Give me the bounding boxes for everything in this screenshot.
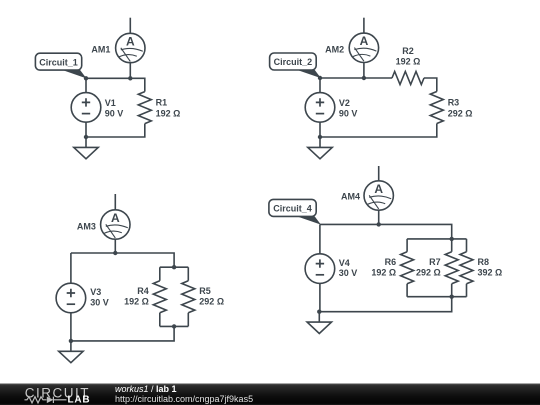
svg-text:30 V: 30 V <box>90 298 109 308</box>
svg-text:292 Ω: 292 Ω <box>199 297 224 307</box>
svg-text:V2: V2 <box>339 98 350 108</box>
svg-text:Circuit_4: Circuit_4 <box>273 203 312 213</box>
svg-text:AM4: AM4 <box>341 191 360 201</box>
svg-text:AM3: AM3 <box>77 222 96 232</box>
svg-text:A: A <box>374 182 383 196</box>
svg-text:R6: R6 <box>385 257 397 267</box>
svg-text:90 V: 90 V <box>105 108 124 118</box>
svg-text:R2: R2 <box>402 46 414 56</box>
svg-text:V3: V3 <box>90 287 101 297</box>
svg-text:192 Ω: 192 Ω <box>396 56 421 66</box>
svg-text:workus1 / lab 1: workus1 / lab 1 <box>115 384 177 394</box>
svg-text:292 Ω: 292 Ω <box>416 268 441 278</box>
svg-text:R7: R7 <box>429 257 441 267</box>
svg-text:R4: R4 <box>137 286 149 296</box>
svg-text:R8: R8 <box>478 257 490 267</box>
svg-text:LAB: LAB <box>68 394 91 405</box>
svg-text:292 Ω: 292 Ω <box>448 109 473 119</box>
svg-text:R1: R1 <box>156 97 168 107</box>
svg-text:192 Ω: 192 Ω <box>371 268 396 278</box>
svg-text:R3: R3 <box>448 97 460 107</box>
svg-text:A: A <box>126 34 135 48</box>
svg-text:192 Ω: 192 Ω <box>156 109 181 119</box>
svg-text:392 Ω: 392 Ω <box>478 268 503 278</box>
svg-text:192 Ω: 192 Ω <box>124 297 149 307</box>
svg-text:AM2: AM2 <box>325 45 344 55</box>
svg-text:90 V: 90 V <box>339 108 358 118</box>
svg-text:A: A <box>111 211 120 225</box>
svg-text:A: A <box>360 34 369 48</box>
svg-text:V1: V1 <box>105 98 116 108</box>
svg-text:Circuit_1: Circuit_1 <box>39 57 78 67</box>
svg-text:30 V: 30 V <box>339 268 358 278</box>
svg-text:AM1: AM1 <box>91 45 110 55</box>
svg-text:http://circuitlab.com/cngpa7jf: http://circuitlab.com/cngpa7jf9kas5 <box>115 394 253 404</box>
svg-text:Circuit_2: Circuit_2 <box>274 57 313 67</box>
svg-text:R5: R5 <box>199 286 211 296</box>
svg-text:V4: V4 <box>339 258 350 268</box>
